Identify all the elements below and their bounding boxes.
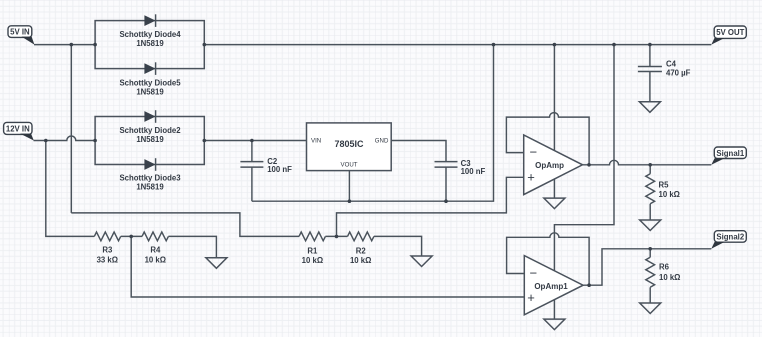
svg-text:10 kΩ: 10 kΩ [659,190,680,199]
svg-text:12V IN: 12V IN [6,124,30,133]
resistor R2 10k [348,232,374,265]
diode box D4/D5 [95,21,204,69]
ground after R2 [411,256,432,267]
svg-text:10 kΩ: 10 kΩ [302,256,323,265]
svg-text:−: − [530,266,538,281]
wire 5V divider feed: across, down, to R1 [71,213,299,237]
capacitor C3 [435,159,486,201]
diode box D2/D3 [95,117,204,165]
wire 12V rail diode box to 7805 VIN [204,140,306,142]
svg-text:+: + [527,290,535,305]
svg-text:Schottky Diode5: Schottky Diode5 [119,79,181,88]
wire vertical from 5V IN node down to divider row [70,45,72,213]
svg-text:Schottky Diode3: Schottky Diode3 [119,174,181,183]
wire 12V down to R3 [46,141,95,237]
svg-text:OpAmp: OpAmp [535,161,564,170]
op-amp U2 OpAmp [524,135,583,195]
capacitor C2 [240,141,292,202]
resistor R1 10k [299,232,325,265]
wire 5V IN to diode box [34,44,95,46]
svg-text:5V IN: 5V IN [10,28,30,37]
svg-text:Signal2: Signal2 [716,233,744,242]
regulator U1 7805IC [307,123,392,171]
svg-text:R4: R4 [150,246,161,255]
svg-text:Schottky Diode2: Schottky Diode2 [119,126,181,135]
resistor R3 33k [94,232,120,264]
svg-text:5V OUT: 5V OUT [716,28,744,37]
wire OpAmp V- stem [553,179,555,198]
svg-text:100 nF: 100 nF [461,167,486,176]
node Signal1 flag [711,147,746,165]
diode Schottky Diode2 [119,110,181,144]
node 5V OUT flag [711,26,746,45]
node 12V IN flag [4,122,34,140]
capacitor C4 [638,45,691,102]
ground below C4 [639,102,660,113]
svg-text:R5: R5 [659,180,670,189]
svg-text:Schottky Diode4: Schottky Diode4 [119,30,181,39]
wire R2 to ground [374,236,422,256]
ground below R6 [640,303,661,314]
svg-text:VIN: VIN [311,137,321,144]
wire 12V rail with hop over 5V vertical [34,136,96,141]
diode Schottky Diode4 [119,14,181,48]
svg-text:VOUT: VOUT [341,162,358,169]
diode Schottky Diode5 [119,62,181,96]
wire OpAmp feedback (- input to output) with hop [506,113,589,165]
wire 5V riser to OpAmp1 supply [554,45,614,271]
ground after R4 [206,258,227,269]
wire R3-R4 link [121,235,142,237]
wire VOUT stem [348,171,350,202]
svg-text:R3: R3 [102,246,113,255]
svg-text:R2: R2 [356,247,367,256]
svg-text:10 kΩ: 10 kΩ [350,256,371,265]
svg-text:10 kΩ: 10 kΩ [659,273,680,282]
wire ground rail from C2 to 5V rail riser [252,45,494,202]
wire R1/R2 tap up to OpAmp + input [337,177,524,236]
wire OpAmp output to Signal1 with hop [583,160,712,165]
svg-text:Signal1: Signal1 [716,149,744,158]
svg-text:OpAmp1: OpAmp1 [534,282,568,291]
wire OpAmp V+ from 5V rail [553,45,555,151]
svg-text:−: − [530,145,538,160]
svg-text:1N5819: 1N5819 [136,88,164,97]
svg-text:C4: C4 [666,60,677,69]
svg-text:1N5819: 1N5819 [136,135,164,144]
resistor R6 10k [646,249,681,303]
ground below OpAmp1 [544,319,565,330]
ground below R5 [640,220,661,231]
wire OpAmp1 V- stem [553,300,555,319]
svg-text:7805IC: 7805IC [334,139,364,149]
svg-text:10 kΩ: 10 kΩ [145,255,166,264]
svg-text:R6: R6 [659,263,670,272]
node Signal2 flag [711,231,746,249]
svg-text:100 nF: 100 nF [267,165,292,174]
svg-text:+: + [527,170,535,185]
resistor R4 10k [142,232,168,264]
wire OpAmp1 output up to Signal2 [583,249,711,285]
op-amp U3 OpAmp1 [524,256,583,315]
wire OpAmp1 feedback with hop [507,233,589,285]
wire R4 to ground [168,236,216,257]
svg-text:R1: R1 [307,247,318,256]
resistor R5 10k [646,165,680,220]
ground below OpAmp [544,198,565,209]
svg-text:1N5819: 1N5819 [136,183,164,192]
wire R1-R2 link [325,235,347,237]
wire 7805 GND to C3 [391,141,446,162]
wire 5V rail right of diode box to 5V OUT [204,44,711,46]
svg-text:GND: GND [375,137,389,144]
svg-text:33 kΩ: 33 kΩ [97,255,118,264]
diode Schottky Diode3 [119,158,181,191]
svg-text:1N5819: 1N5819 [136,39,164,48]
svg-text:470 µF: 470 µF [666,69,691,78]
wire R3/R4 tap down to OpAmp1 + [131,236,524,297]
node 5V IN flag [8,26,34,45]
